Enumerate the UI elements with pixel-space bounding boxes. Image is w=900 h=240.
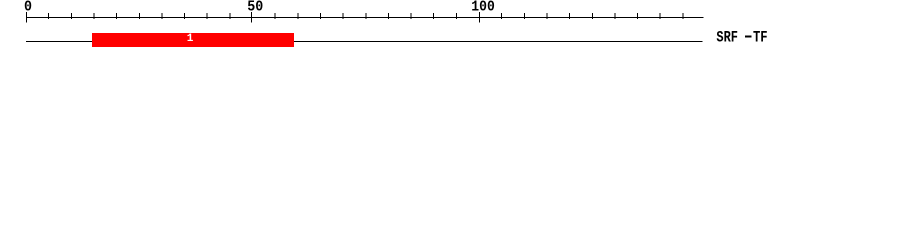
svg-text:1: 1 bbox=[187, 33, 194, 45]
svg-text:50: 50 bbox=[247, 0, 263, 16]
svg-text:0: 0 bbox=[24, 0, 32, 16]
domain box 1 (SRF-TF) bbox=[92, 33, 294, 47]
label SRF-TF hyphen bbox=[745, 36, 752, 38]
svg-text:SRF: SRF bbox=[716, 28, 738, 46]
svg-text:TF: TF bbox=[753, 28, 768, 46]
protein backbone line bbox=[26, 41, 703, 43]
major tick 100 bbox=[479, 12, 481, 23]
minor ticks every 5 residues bbox=[49, 13, 683, 19]
ruler line bbox=[26, 17, 704, 19]
major tick 0 bbox=[26, 12, 28, 23]
major tick 50 bbox=[251, 12, 253, 23]
svg-text:100: 100 bbox=[471, 0, 495, 16]
